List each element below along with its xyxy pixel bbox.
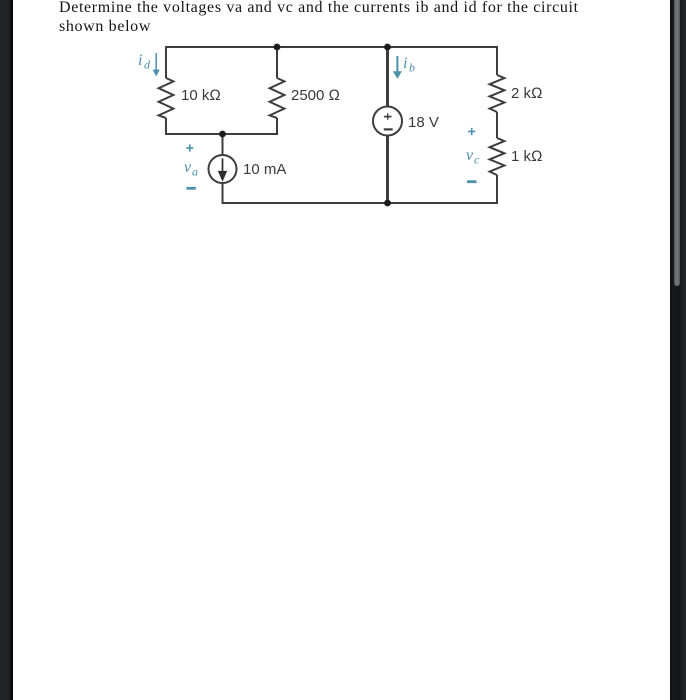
svg-text:i: i — [138, 52, 142, 69]
svg-text:10 kΩ: 10 kΩ — [181, 87, 221, 104]
svg-text:10 mA: 10 mA — [243, 161, 286, 178]
svg-text:v: v — [466, 147, 474, 164]
svg-text:a: a — [192, 165, 198, 179]
svg-text:i: i — [403, 55, 407, 72]
svg-text:2500 Ω: 2500 Ω — [291, 87, 340, 104]
svg-text:1 kΩ: 1 kΩ — [511, 148, 543, 165]
svg-text:b: b — [409, 61, 415, 75]
svg-text:d: d — [144, 58, 151, 72]
svg-text:2 kΩ: 2 kΩ — [511, 85, 543, 102]
svg-text:v: v — [184, 159, 192, 176]
svg-text:c: c — [474, 153, 480, 167]
svg-text:18 V: 18 V — [408, 114, 439, 131]
